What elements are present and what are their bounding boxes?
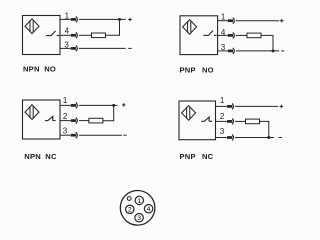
load resistor xyxy=(247,33,261,38)
sensor body box (NPN NC) xyxy=(23,100,61,139)
connector symbol pin 3 xyxy=(71,45,78,51)
svg-text:PNP: PNP xyxy=(180,65,196,74)
minus terminal xyxy=(128,47,131,49)
connector symbol pin 4 xyxy=(228,32,235,38)
pin 3 socket xyxy=(135,214,143,222)
wire pin1 to supply xyxy=(79,104,118,106)
svg-text:PNP: PNP xyxy=(180,152,196,161)
wire pin3 to 0V xyxy=(79,47,126,49)
connector symbol pin 1 xyxy=(228,18,235,24)
proximity sensor symbol xyxy=(183,20,197,35)
minus terminal xyxy=(123,134,126,136)
svg-text:NPN: NPN xyxy=(23,65,40,74)
wire load down to 0V rail xyxy=(260,121,269,137)
pin 1 lead wire xyxy=(216,105,227,107)
connector symbol pin 1 xyxy=(227,103,234,109)
proximity sensor symbol xyxy=(182,106,196,121)
wire pin3 to minus xyxy=(236,50,279,52)
pin 2 socket xyxy=(126,205,134,213)
svg-text:NPN: NPN xyxy=(24,152,41,161)
locating notch xyxy=(127,197,131,201)
wire pin3 to minus xyxy=(235,137,274,139)
wire load down to 0V rail xyxy=(261,35,273,51)
NO contact symbol xyxy=(203,31,216,36)
svg-text:2: 2 xyxy=(220,112,225,121)
svg-text:2: 2 xyxy=(128,207,132,214)
svg-text:1: 1 xyxy=(63,96,68,105)
junction on +V rail xyxy=(112,104,115,107)
svg-text:3: 3 xyxy=(63,126,68,135)
connector symbol pin 2 xyxy=(71,118,78,124)
NO contact symbol xyxy=(46,31,59,36)
pin 1 lead wire xyxy=(218,20,228,22)
pin 4 socket xyxy=(144,205,152,213)
wire pin4 to load xyxy=(79,34,92,36)
connector symbol pin 3 xyxy=(71,132,78,138)
plus terminal xyxy=(128,18,132,22)
svg-text:4: 4 xyxy=(147,206,151,213)
pin 2 lead wire xyxy=(60,120,71,122)
minus terminal xyxy=(281,50,284,52)
svg-text:4: 4 xyxy=(65,27,70,36)
svg-text:1: 1 xyxy=(138,198,142,205)
NC contact symbol xyxy=(201,117,212,122)
svg-text:2: 2 xyxy=(63,112,68,121)
svg-text:NO: NO xyxy=(44,65,56,74)
minus terminal xyxy=(279,137,282,139)
pin 3 lead wire xyxy=(60,47,71,49)
NC contact symbol xyxy=(45,116,56,121)
wire pin1 to supply xyxy=(79,18,126,20)
pin 4 lead wire xyxy=(218,34,228,36)
proximity sensor symbol xyxy=(25,19,39,34)
load resistor xyxy=(92,33,106,38)
proximity sensor symbol xyxy=(25,105,39,120)
pin 3 lead wire xyxy=(60,134,71,136)
connector symbol pin 1 xyxy=(71,16,78,22)
connector outer shell xyxy=(120,191,155,226)
wire pin1 to plus xyxy=(235,105,278,107)
load resistor xyxy=(246,119,260,124)
wire pin3 to 0V xyxy=(79,134,122,136)
connector symbol pin 3 xyxy=(228,48,235,54)
connector symbol pin 4 xyxy=(71,32,78,38)
svg-text:NO: NO xyxy=(202,65,214,74)
pin 4 lead wire xyxy=(60,34,71,36)
sensor body box (PNP NC) xyxy=(179,101,216,140)
svg-text:3: 3 xyxy=(220,127,225,136)
sensor body box (PNP NO) xyxy=(180,16,218,55)
pin 3 lead wire xyxy=(216,137,227,139)
svg-text:3: 3 xyxy=(137,215,141,222)
plus terminal xyxy=(280,105,284,109)
svg-text:1: 1 xyxy=(220,96,225,105)
svg-text:NC: NC xyxy=(45,152,57,161)
junction on 0V rail xyxy=(272,49,275,52)
wire load to +V rail xyxy=(103,105,114,120)
junction on 0V rail xyxy=(267,136,270,139)
pin 1 lead wire xyxy=(60,18,71,20)
pin 1 lead wire xyxy=(60,104,71,106)
wire pin2 to load xyxy=(235,120,245,122)
wire pin1 to plus xyxy=(236,20,279,22)
pin 2 lead wire xyxy=(216,120,227,122)
sensor body box (NPN NO) xyxy=(23,16,61,55)
plus terminal xyxy=(122,103,126,107)
connector symbol pin 2 xyxy=(227,118,234,124)
junction on +V rail xyxy=(118,18,121,21)
svg-text:NC: NC xyxy=(202,152,214,161)
connector symbol pin 3 xyxy=(227,135,234,141)
wire load to +V rail xyxy=(106,19,120,35)
pin 3 lead wire xyxy=(218,50,228,52)
load resistor xyxy=(89,118,103,123)
connector symbol pin 1 xyxy=(71,102,78,108)
wire pin2 to load xyxy=(79,120,89,122)
pin 1 socket xyxy=(135,196,143,204)
wire pin4 to load xyxy=(236,34,247,36)
plus terminal xyxy=(280,19,284,23)
